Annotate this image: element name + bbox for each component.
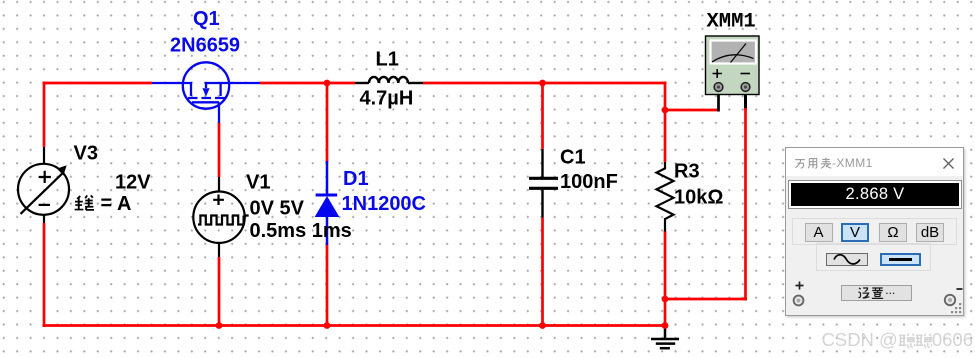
diode D1 (1N1200C) — [316, 161, 339, 245]
junction node V1-bottom — [216, 322, 223, 329]
label 100nF — [560, 171, 618, 193]
multimeter reading display — [789, 181, 961, 208]
minus terminal jack — [943, 293, 957, 307]
wire D1 bottom — [326, 244, 329, 326]
glyph jian (key) for V3 label — [75, 195, 94, 209]
svg-text:100nF: 100nF — [560, 171, 618, 193]
settings button — [841, 285, 912, 301]
wire C1 top — [541, 83, 544, 149]
junction node XMM-minus — [662, 296, 669, 303]
svg-text:0V 5V: 0V 5V — [250, 197, 305, 219]
svg-text:=: = — [101, 193, 113, 215]
label C1 — [560, 146, 586, 168]
junction node ground — [662, 322, 669, 329]
wire left vertical upper (V3 top) — [43, 82, 46, 148]
svg-text:10kΩ: 10kΩ — [674, 187, 723, 209]
wire rail Q1 to L1 — [260, 82, 355, 85]
button Ohm — [879, 223, 907, 242]
junction node C1-bottom — [539, 322, 546, 329]
svg-text:XMM1: XMM1 — [707, 11, 756, 34]
junction node C1-top — [539, 80, 546, 87]
label XMM1 — [707, 11, 756, 34]
svg-text:12V: 12V — [115, 172, 151, 194]
button A — [805, 223, 833, 242]
button V (selected) — [841, 223, 869, 242]
dialog close button — [943, 158, 954, 169]
group box waveform — [816, 243, 931, 271]
glyph zhi — [871, 286, 884, 299]
label Q1 — [193, 8, 220, 30]
junction node XMM-plus — [662, 107, 669, 114]
label 10k ohm — [674, 187, 723, 209]
junction node D1-bottom — [324, 322, 331, 329]
glyph yong — [807, 157, 819, 169]
wire XMM minus branch — [665, 92, 747, 301]
svg-text:V1: V1 — [246, 171, 270, 193]
label 4.7uH — [360, 87, 414, 109]
svg-text:2N6659: 2N6659 — [170, 35, 240, 57]
multimeter XMM1 icon — [706, 36, 760, 95]
source V1 (pulse 0V 5V) — [193, 177, 248, 257]
svg-text:0.5ms 1ms: 0.5ms 1ms — [250, 220, 352, 242]
label 0V 5V — [250, 197, 305, 219]
label V3 — [74, 142, 98, 164]
svg-text:L1: L1 — [376, 48, 399, 70]
svg-text:Q1: Q1 — [193, 8, 220, 30]
wire D1 top — [326, 83, 329, 163]
svg-text:D1: D1 — [343, 168, 369, 190]
glyph biao — [820, 157, 832, 169]
ground — [651, 326, 679, 348]
wire C1 bottom — [541, 218, 544, 326]
plus terminal label — [795, 281, 804, 290]
label V1 — [246, 171, 270, 193]
wire right vertical lower (R3 bottom to rail) — [664, 231, 667, 326]
resistor R3 (10k) — [657, 162, 674, 232]
svg-text:C1: C1 — [560, 146, 586, 168]
resize grip — [951, 303, 962, 314]
button dB — [916, 223, 944, 242]
label D1 — [343, 168, 369, 190]
watermark — [822, 331, 974, 349]
label R3 — [674, 161, 700, 183]
plus terminal jack — [792, 294, 805, 307]
svg-text:A: A — [117, 193, 131, 215]
svg-text:R3: R3 — [674, 161, 700, 183]
glyph she — [857, 286, 870, 299]
label L1 — [376, 48, 399, 70]
junction node D1-top — [324, 80, 331, 87]
wire top-left horizontal — [43, 82, 153, 85]
transistor Q1 (MOSFET 2N6659) — [152, 62, 260, 123]
glyph wan — [794, 157, 806, 169]
wire rail L1 to corner — [423, 82, 667, 85]
label 1N1200C — [342, 193, 427, 215]
group box modes — [792, 218, 957, 245]
label 2N6659 — [170, 35, 240, 57]
button AC (sine) — [826, 253, 868, 266]
wire bottom rail — [43, 324, 666, 327]
svg-text:1N1200C: 1N1200C — [342, 193, 427, 215]
wire XMM plus branch — [665, 92, 719, 112]
label 0.5ms 1ms — [250, 220, 352, 242]
dialog titlebar — [786, 148, 963, 176]
svg-text:4.7µH: 4.7µH — [360, 87, 414, 109]
button DC (selected) — [880, 253, 921, 266]
label 12V — [115, 172, 151, 194]
minus terminal label — [956, 287, 963, 291]
inductor L1 (4.7uH) — [355, 77, 423, 83]
svg-text:V3: V3 — [74, 142, 98, 164]
source V3 (12V battery, variable) — [18, 147, 69, 223]
capacitor C1 (100nF) — [529, 149, 558, 218]
wire Q1 gate to V1 — [218, 123, 221, 177]
label key = A — [101, 193, 132, 215]
wire left vertical lower (V3 bottom) — [43, 223, 46, 327]
wire right vertical upper — [664, 82, 667, 163]
wire V1 bottom — [218, 257, 221, 326]
